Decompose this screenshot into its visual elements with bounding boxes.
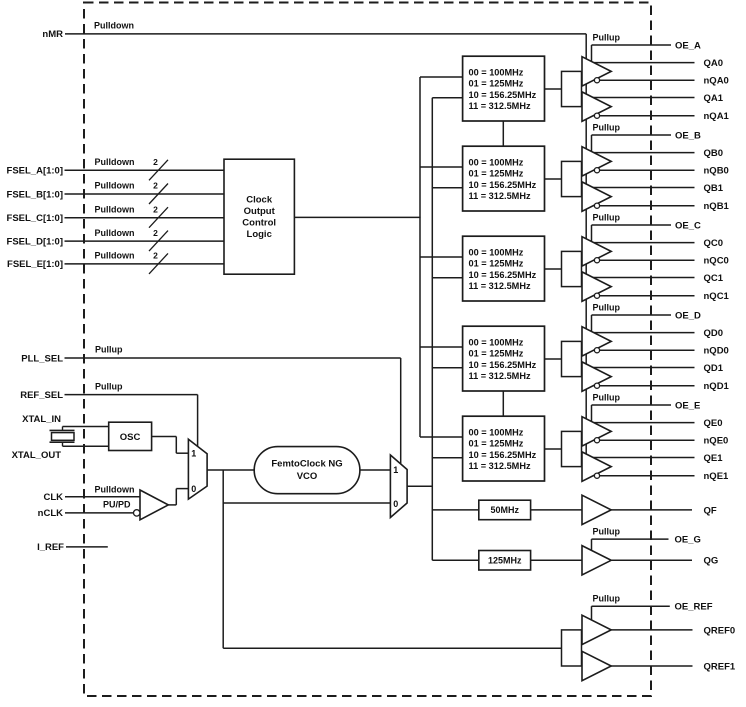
output buffer QE0/nQE0: [582, 417, 611, 446]
wire PLL bypass to mux U3 input 0: [223, 502, 390, 504]
svg-text:2: 2: [153, 181, 158, 191]
svg-text:Logic: Logic: [247, 229, 272, 240]
output buffer QREF0: [582, 615, 611, 644]
svg-text:Pullup: Pullup: [95, 381, 123, 391]
wire mux U3 output to clock bus: [407, 485, 433, 487]
inverting bubble nQA0: [594, 78, 599, 83]
wire clock bus to divider D input: [432, 367, 462, 369]
svg-text:PLL_SEL: PLL_SEL: [21, 353, 63, 364]
svg-text:FemtoClock NG: FemtoClock NG: [271, 459, 342, 470]
svg-text:00 = 100MHz: 00 = 100MHz: [469, 157, 524, 167]
svg-text:Pulldown: Pulldown: [95, 204, 135, 214]
wire OE_A enable: [592, 44, 672, 46]
svg-text:10 = 156.25MHz: 10 = 156.25MHz: [469, 180, 537, 190]
svg-text:Pulldown: Pulldown: [95, 228, 135, 238]
output buffer QD1/nQD1: [582, 362, 611, 391]
svg-text:nQD1: nQD1: [704, 381, 730, 392]
wire OE_A drop to buffer: [591, 45, 593, 71]
output buffer QC1/nQC1: [582, 272, 611, 301]
wire output nQA0: [585, 79, 695, 81]
svg-text:01 = 125MHz: 01 = 125MHz: [469, 169, 524, 179]
wire output QC0: [585, 242, 695, 244]
wire nCLK input: [65, 512, 133, 514]
svg-text:Pullup: Pullup: [593, 32, 621, 42]
wire divider A output: [545, 88, 562, 90]
wire divider E output: [545, 448, 562, 450]
svg-text:OE_D: OE_D: [675, 310, 701, 321]
svg-text:Pullup: Pullup: [593, 392, 621, 402]
svg-text:01 = 125MHz: 01 = 125MHz: [469, 439, 524, 449]
svg-text:nQE0: nQE0: [704, 436, 729, 447]
wire OE_G drop to buffer: [591, 539, 593, 552]
svg-text:FSEL_D[1:0]: FSEL_D[1:0]: [7, 236, 63, 247]
output buffer QG: [582, 546, 611, 575]
wire output nQB0: [585, 169, 695, 171]
svg-text:11 = 312.5MHz: 11 = 312.5MHz: [469, 281, 531, 291]
svg-text:Pulldown: Pulldown: [95, 251, 135, 261]
wire output QB0: [585, 152, 695, 154]
svg-text:50MHz: 50MHz: [490, 505, 519, 515]
wire select bus to divider E control: [420, 436, 463, 438]
wire FSEL_E input: [65, 263, 225, 265]
output buffer QE1/nQE1: [582, 452, 611, 481]
wire output QREF1: [585, 665, 693, 667]
inverting bubble nQA1: [594, 113, 599, 118]
wire reference to QREF buffers: [223, 647, 561, 649]
inverting bubble nQB0: [594, 168, 599, 173]
svg-text:QB1: QB1: [704, 183, 724, 194]
svg-text:11 = 312.5MHz: 11 = 312.5MHz: [469, 371, 531, 381]
svg-text:Pulldown: Pulldown: [95, 484, 135, 494]
wire select bus to divider B control: [420, 166, 463, 168]
svg-text:I_REF: I_REF: [37, 542, 64, 553]
wire output nQD1: [585, 385, 695, 387]
svg-text:QC1: QC1: [704, 273, 724, 284]
wire output QA1: [585, 97, 695, 99]
wire OE_C enable: [592, 224, 672, 226]
inverting bubble nQC1: [594, 293, 599, 298]
svg-text:Pullup: Pullup: [593, 212, 621, 222]
bus width slash FSEL_C: [149, 207, 168, 228]
svg-text:10 = 156.25MHz: 10 = 156.25MHz: [469, 90, 537, 100]
wire output nQC1: [585, 295, 695, 297]
svg-text:QG: QG: [704, 556, 719, 567]
wire divider B output: [545, 178, 562, 180]
divider block E frequency select: [463, 416, 545, 481]
wire output QREF0: [585, 629, 693, 631]
wire REF_SEL select drop to mux U2: [197, 395, 199, 447]
output buffer QB1/nQB1: [582, 182, 611, 211]
wire OE_E enable: [592, 404, 672, 406]
inverting bubble nQC0: [594, 258, 599, 263]
wire clock bus to divider E input: [432, 457, 462, 459]
svg-text:10 = 156.25MHz: 10 = 156.25MHz: [469, 360, 537, 370]
svg-text:QB0: QB0: [704, 148, 724, 159]
wire output QA0: [585, 62, 695, 64]
wire QF output path: [432, 509, 692, 511]
output buffer QA0/nQA0: [582, 57, 611, 86]
svg-text:OE_G: OE_G: [675, 535, 701, 546]
wire divider C output: [545, 268, 562, 270]
svg-text:11 = 312.5MHz: 11 = 312.5MHz: [469, 461, 531, 471]
svg-text:2: 2: [153, 228, 158, 238]
svg-text:QF: QF: [704, 505, 717, 516]
wire clock bus to divider C input: [432, 277, 462, 279]
svg-text:nQE1: nQE1: [704, 471, 730, 482]
svg-text:Pulldown: Pulldown: [95, 157, 135, 167]
wire divider D to divider E link: [502, 391, 504, 416]
svg-text:01 = 125MHz: 01 = 125MHz: [469, 259, 524, 269]
svg-text:FSEL_B[1:0]: FSEL_B[1:0]: [7, 189, 63, 200]
svg-text:11 = 312.5MHz: 11 = 312.5MHz: [469, 191, 531, 201]
wire output QC1: [585, 277, 695, 279]
wire divider D output: [545, 358, 562, 360]
svg-text:10 = 156.25MHz: 10 = 156.25MHz: [469, 450, 537, 460]
svg-text:nQA0: nQA0: [704, 76, 729, 87]
divider block D frequency select: [463, 326, 545, 391]
wire OE_B drop to buffer: [591, 135, 593, 161]
wire OE_D drop to buffer: [591, 315, 593, 341]
wire divider A to divider B link: [502, 121, 504, 146]
input buffer U5 (CLK/nCLK differential receiver): [140, 490, 168, 520]
svg-text:FSEL_A[1:0]: FSEL_A[1:0]: [7, 166, 63, 177]
wire output nQE0: [585, 439, 695, 441]
svg-text:REF_SEL: REF_SEL: [20, 390, 63, 401]
svg-text:Pullup: Pullup: [593, 122, 621, 132]
mux U3 PLL select: [390, 455, 407, 518]
svg-text:nQD0: nQD0: [704, 346, 729, 357]
svg-text:01 = 125MHz: 01 = 125MHz: [469, 349, 524, 359]
wire nMR to output-enable bus: [65, 33, 586, 35]
output buffer QB0/nQB0: [582, 147, 611, 176]
svg-text:nQB0: nQB0: [704, 166, 729, 177]
svg-text:VCO: VCO: [297, 471, 318, 482]
wire OSC output to mux U2 input 1: [152, 436, 177, 438]
wire select bus to divider D control: [420, 346, 463, 348]
wire clock bus to divider B input: [432, 187, 462, 189]
svg-text:Pulldown: Pulldown: [94, 21, 134, 31]
wire VCO output to mux U3 input 1: [360, 469, 391, 471]
svg-text:QC0: QC0: [704, 238, 724, 249]
svg-text:PU/PD: PU/PD: [103, 500, 131, 510]
svg-text:QE0: QE0: [704, 418, 723, 429]
wire select bus vertical (from control logic): [419, 77, 421, 437]
svg-text:10 = 156.25MHz: 10 = 156.25MHz: [469, 270, 537, 280]
svg-text:00 = 100MHz: 00 = 100MHz: [469, 337, 524, 347]
wire OE_G enable: [592, 538, 669, 540]
mux U2 reference select: [188, 439, 207, 499]
crystal Y1: [50, 427, 75, 447]
svg-text:XTAL_IN: XTAL_IN: [22, 414, 61, 425]
inverting bubble nQD0: [594, 348, 599, 353]
wire XTAL_OUT to OSC: [63, 445, 109, 447]
svg-text:OE_C: OE_C: [675, 220, 701, 231]
svg-text:CLK: CLK: [43, 492, 63, 503]
wire CLK input: [65, 496, 140, 498]
block U1 Clock Output Control Logic: [224, 159, 294, 274]
divider block F 50MHz: [479, 500, 531, 520]
wire select bus to divider C control: [420, 256, 463, 258]
svg-text:2: 2: [153, 204, 158, 214]
output buffer QC0/nQC0: [582, 237, 611, 266]
output buffer QA1/nQA1: [582, 92, 611, 121]
svg-text:QA1: QA1: [704, 93, 724, 104]
svg-text:Output: Output: [244, 206, 276, 217]
wire FSEL_D input: [65, 240, 225, 242]
svg-text:11 = 312.5MHz: 11 = 312.5MHz: [469, 101, 531, 111]
bus width slash FSEL_D: [149, 231, 168, 252]
fanout node bank D: [562, 341, 582, 376]
svg-text:OSC: OSC: [120, 432, 141, 443]
wire OE_E drop to buffer: [591, 405, 593, 431]
wire output QB1: [585, 187, 695, 189]
wire select bus to divider A control: [420, 76, 463, 78]
wire FSEL_A input: [65, 169, 225, 171]
inverting bubble nQE0: [594, 438, 599, 443]
svg-text:QE1: QE1: [704, 453, 724, 464]
svg-text:Pullup: Pullup: [593, 594, 621, 604]
wire output nQE1: [585, 475, 695, 477]
fanout node bank A: [562, 71, 582, 106]
wire REF_SEL: [65, 394, 198, 396]
svg-text:00 = 100MHz: 00 = 100MHz: [469, 67, 524, 77]
output buffer QF: [582, 495, 611, 524]
fanout node QREF: [562, 630, 582, 666]
svg-text:125MHz: 125MHz: [488, 556, 522, 566]
bus width slash FSEL_B: [149, 184, 168, 205]
svg-text:QREF0: QREF0: [704, 625, 736, 636]
divider block B frequency select: [463, 146, 545, 211]
wire output nQA1: [585, 115, 695, 117]
svg-text:2: 2: [153, 157, 158, 167]
wire OE_REF drop to buffer: [591, 606, 593, 620]
wire QG output path: [432, 559, 692, 561]
bus width slash FSEL_E: [149, 253, 168, 274]
svg-text:Control: Control: [242, 217, 276, 228]
svg-text:2: 2: [153, 251, 158, 261]
fanout node bank B: [562, 161, 582, 196]
svg-text:FSEL_C[1:0]: FSEL_C[1:0]: [7, 213, 63, 224]
inverting bubble nQD1: [594, 383, 599, 388]
svg-text:1: 1: [191, 448, 196, 458]
inverting bubble on nCLK input: [134, 510, 140, 516]
block U6 FemtoClock NG VCO: [254, 447, 360, 494]
wire OE_C drop to buffer: [591, 225, 593, 251]
wire PLL_SEL select drop to mux U3: [400, 358, 402, 465]
svg-text:nCLK: nCLK: [38, 508, 63, 519]
svg-text:OE_A: OE_A: [675, 40, 701, 51]
wire PLL_SEL: [65, 357, 401, 359]
svg-text:nQC1: nQC1: [704, 291, 730, 302]
svg-text:nQC0: nQC0: [704, 256, 729, 267]
output buffer QD0/nQD0: [582, 327, 611, 356]
svg-text:OE_B: OE_B: [675, 130, 701, 141]
wire OE pullup bus vertical: [585, 34, 587, 467]
svg-text:OE_REF: OE_REF: [675, 602, 713, 613]
svg-text:1: 1: [393, 465, 398, 475]
wire clock bus vertical (from mux U3): [431, 98, 433, 561]
wire output nQB1: [585, 205, 695, 207]
svg-text:QREF1: QREF1: [704, 661, 736, 672]
svg-text:FSEL_E[1:0]: FSEL_E[1:0]: [7, 259, 63, 270]
svg-text:QA0: QA0: [704, 58, 724, 69]
svg-text:0: 0: [191, 484, 196, 494]
output buffer QREF1: [582, 651, 611, 680]
wire clock bus to divider A input: [432, 97, 462, 99]
block U4 OSC: [109, 422, 152, 450]
svg-text:00 = 100MHz: 00 = 100MHz: [469, 247, 524, 257]
svg-text:QD1: QD1: [704, 363, 724, 374]
svg-text:01 = 125MHz: 01 = 125MHz: [469, 79, 524, 89]
svg-text:nMR: nMR: [42, 29, 63, 40]
divider block G 125MHz: [479, 551, 531, 571]
wire output QD1: [585, 367, 695, 369]
fanout node bank E: [562, 431, 582, 466]
svg-text:Pullup: Pullup: [593, 527, 621, 537]
wire reference bypass vertical: [222, 470, 224, 648]
wire I_REF stub: [66, 546, 108, 548]
wire output QE0: [585, 422, 695, 424]
wire CLK buffer output to mux U2 input 0: [168, 504, 176, 506]
svg-text:00 = 100MHz: 00 = 100MHz: [469, 427, 524, 437]
wire OE_B enable: [592, 134, 672, 136]
svg-text:nQB1: nQB1: [704, 201, 730, 212]
bus width slash FSEL_A: [149, 160, 168, 181]
svg-text:Pulldown: Pulldown: [95, 181, 135, 191]
wire XTAL_IN to OSC: [63, 426, 109, 428]
wire output nQD0: [585, 349, 695, 351]
svg-text:OE_E: OE_E: [675, 400, 700, 411]
svg-text:XTAL_OUT: XTAL_OUT: [12, 450, 62, 461]
wire OE_REF enable: [592, 605, 670, 607]
wire FSEL_C input: [65, 217, 225, 219]
fanout node bank C: [562, 251, 582, 286]
divider block A frequency select: [463, 56, 545, 121]
svg-text:Pullup: Pullup: [593, 302, 621, 312]
chip boundary (dashed device outline): [84, 3, 651, 697]
wire OE_D enable: [592, 314, 672, 316]
inverting bubble nQE1: [594, 473, 599, 478]
svg-text:QD0: QD0: [704, 328, 724, 339]
divider block C frequency select: [463, 236, 545, 301]
wire FSEL_B input: [65, 193, 225, 195]
wire mux U2 output / node REF: [207, 469, 254, 471]
wire output QD0: [585, 332, 695, 334]
inverting bubble nQB1: [594, 203, 599, 208]
wire output QE1: [585, 457, 695, 459]
svg-text:Clock: Clock: [246, 194, 273, 205]
svg-text:Pullup: Pullup: [95, 345, 123, 355]
wire control logic output to select bus: [294, 216, 420, 218]
svg-text:nQA1: nQA1: [704, 111, 730, 122]
wire output nQC0: [585, 259, 695, 261]
svg-text:0: 0: [393, 499, 398, 509]
